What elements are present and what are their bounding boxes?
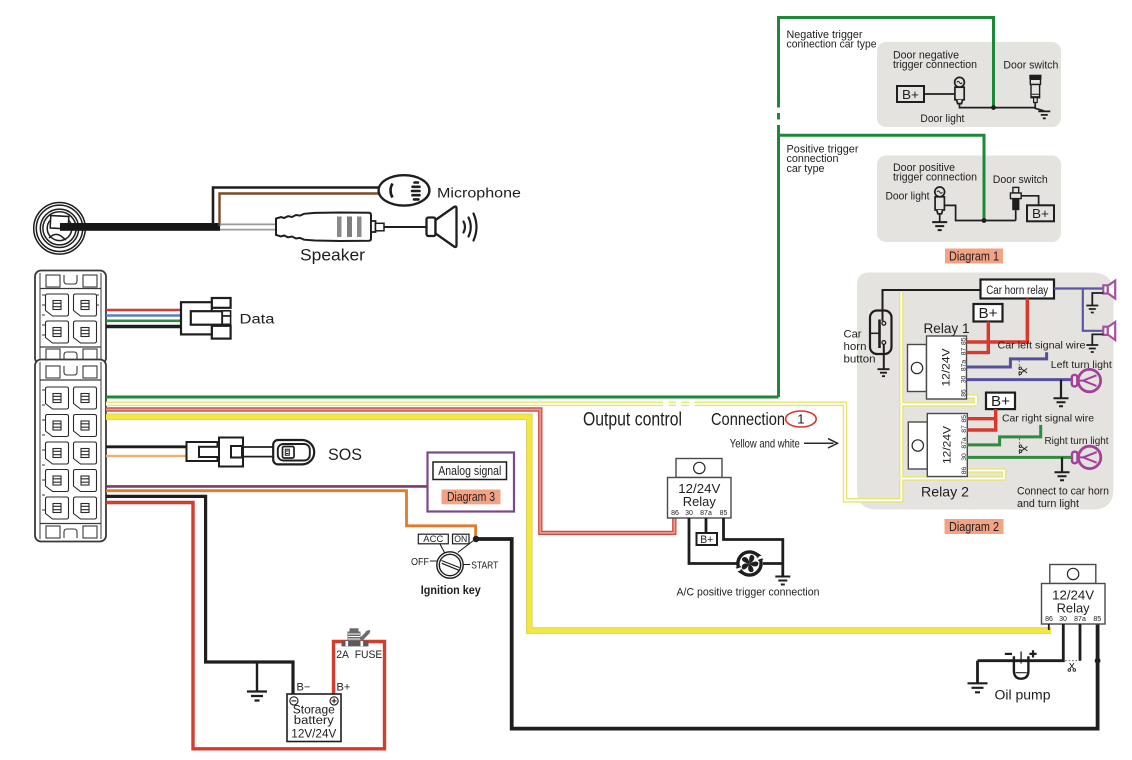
panel1 switch ground wire [1035,103,1044,111]
svg-text:Output control: Output control [583,410,682,431]
relay2 red wire pin87 [967,419,995,430]
panel1 wire B+ to bulb [924,93,955,95]
analog signal box (Diagram 3) [428,453,515,512]
junction dot pin85 [1095,658,1101,664]
relay K2 pin30 wire to oil pump [978,624,1064,661]
ground horn button [878,369,890,376]
svg-text:Analog signal: Analog signal [438,464,501,478]
svg-text:START: START [471,561,498,572]
panel1 door light bulb [955,77,965,103]
panel2 door switch icon [1010,187,1021,220]
svg-text:B+: B+ [337,682,351,694]
ground oil pump [968,683,988,692]
svg-text:Diagram 2: Diagram 2 [949,519,999,534]
oil pump relay K2 [1042,565,1106,625]
ground horn1 [1086,306,1098,313]
car horn button [870,311,892,369]
svg-text:Oil pump: Oil pump [995,688,1051,703]
svg-text:Ignition key: Ignition key [421,585,482,597]
panel2 door light bulb [935,187,945,214]
relay K2 pin86 stub [1048,624,1050,630]
wire speaker to horn [384,226,427,228]
diagram 2 panel background [857,273,1114,510]
svg-text:trigger connection: trigger connection [893,59,977,71]
svg-text:Diagram 3: Diagram 3 [447,490,495,504]
svg-text:12/24V: 12/24V [678,482,721,496]
thick audio cable [60,223,220,231]
SOS button icon mark [285,449,289,455]
ignition key switch [411,534,498,597]
svg-text:12/24V: 12/24V [1052,589,1095,603]
svg-text:Right turn light: Right turn light [1045,436,1109,447]
svg-text:A/C positive trigger connectio: A/C positive trigger connection [677,587,820,599]
door trigger panel 2 background [877,156,1061,243]
relay1 red wire pin85 to horn relay [967,299,1028,343]
data wires red/blue/green/black [106,309,182,312]
svg-text:30: 30 [1059,616,1067,623]
speaker wire (gray pair) [220,224,276,229]
svg-text:B−: B− [297,682,311,694]
left turn light bulb [1072,369,1101,391]
car horn relay box [981,280,1055,299]
panel1 B+ box [897,86,924,102]
B+ box K1 [697,533,718,545]
relay1 red wire pin87 to B+ [967,322,989,353]
panel2 wire switch to B+ [1021,196,1038,206]
scissors cut mark 3 [1065,660,1080,662]
svg-text:Door switch: Door switch [993,174,1048,186]
svg-text:Relay 2: Relay 2 [921,484,969,500]
green door-trigger wire [106,18,994,398]
svg-text:12V/24V: 12V/24V [291,729,336,741]
horn loudspeaker icon [427,207,457,248]
panel1 green junction [991,105,996,110]
svg-text:Door switch: Door switch [1003,60,1058,72]
B+ box relay2 [986,393,1015,410]
svg-text:Diagram 1: Diagram 1 [949,248,999,263]
B+ box relay1 [974,304,1003,322]
yellow wire gaps [663,400,695,408]
panel1 door switch icon [1029,75,1041,103]
svg-text:horn: horn [844,341,867,353]
svg-text:Yellow and white: Yellow and white [730,436,800,450]
svg-text:87a: 87a [700,510,712,517]
scissors cut mark 2 [1019,439,1021,458]
svg-text:B+: B+ [902,87,919,102]
SOS button S1 [273,440,314,464]
horn1 ground wire [1092,293,1103,305]
relay1 violet wire pin30 to left turn light [967,378,1072,381]
svg-text:86: 86 [671,510,679,517]
svg-text:button: button [844,354,876,366]
svg-text:85: 85 [1093,616,1101,623]
car horn speaker 2 [1103,322,1115,340]
purple analog wire [106,485,428,488]
thick yellow output wire [106,417,1051,631]
SOS wire black [106,445,188,448]
oil pump cup [1005,650,1037,678]
svg-text:Relay: Relay [1057,602,1091,616]
svg-text:and turn light: and turn light [1017,498,1079,510]
svg-text:85: 85 [720,510,728,517]
analog signal inner label box [433,462,507,480]
red-white striped output wire [106,410,674,533]
panel2 B+ box [1027,205,1054,221]
svg-text:connection car type: connection car type [787,38,877,50]
svg-text:30: 30 [685,510,693,517]
microphone wire (brown) [220,194,381,227]
svg-text:car type: car type [787,163,825,175]
svg-text:B+: B+ [979,306,998,322]
svg-text:ACC: ACC [423,534,444,544]
relay K1 pin85 wire [724,518,783,576]
black battery wire [106,496,293,694]
svg-text:Data: Data [240,312,276,327]
microphone M1 [379,175,430,205]
output relay K1 [668,459,732,519]
storage battery BT1 [287,694,341,742]
relay1 violet wire pin87a (car left signal) [967,352,1047,367]
relay 2 (12/24V) [908,414,968,477]
data connector CN2 [181,298,231,339]
svg-text:1: 1 [797,412,804,427]
relay2 red wire pin85 [967,409,995,419]
A/C fan icon [735,552,765,575]
svg-text:SOS: SOS [328,446,362,464]
svg-text:Car left signal wire: Car left signal wire [998,340,1086,351]
diagram 2 tag [945,519,1004,534]
relay2 green wire pin30 to right turn light [967,456,1072,459]
svg-text:Door light: Door light [886,190,930,202]
svg-text:Door light: Door light [920,113,964,125]
left turn light ground [1060,380,1062,398]
oil pump ground stem [976,661,979,683]
svg-text:Left turn light: Left turn light [1051,360,1112,371]
horn sound waves [464,214,477,241]
svg-text:OFF: OFF [411,557,429,568]
svg-text:Relay 1: Relay 1 [924,320,970,336]
microphone wire (black) [213,188,380,225]
svg-text:Car horn relay: Car horn relay [986,285,1048,297]
speaker device body [276,213,384,242]
main ACC black wire to oil pump relay [476,539,1098,729]
door trigger panel 1 background [877,42,1061,127]
svg-text:Relay: Relay [683,495,717,509]
ignition junction node [473,536,479,542]
arrow to diagram 2 [804,439,838,448]
yellow-white striped wire [106,292,1004,500]
2A fuse icon [342,628,371,646]
panel2 wire bulb to switch line [944,205,1015,220]
relay K2 pin87a stub [1079,624,1082,661]
panel1 bulb stub wire [960,104,1036,108]
svg-text:87a: 87a [1074,616,1086,623]
scissors cut mark 1 [1018,361,1020,380]
ground panel2 bulb [932,222,947,230]
ground battery [247,692,267,701]
svg-text:Car right signal wire: Car right signal wire [1002,414,1094,425]
svg-text:B+: B+ [991,394,1010,410]
4-pin connector CN1 [35,271,106,365]
SOS wire peach [106,455,198,458]
ground horn2 [1086,345,1098,352]
10-pin connector CN3 [35,360,106,542]
SOS connector pair [187,438,244,467]
green wire dashed segment [777,101,780,132]
relay K1 pin87a to B+ [705,518,708,533]
wire horn relay to button [883,290,981,321]
red battery wire [106,503,385,749]
relay K1 pin30 wire [689,518,737,564]
svg-text:B+: B+ [700,534,713,546]
violet wire to horns [1054,289,1103,331]
right turn light bulb [1072,446,1101,468]
svg-text:Connection: Connection [711,409,785,429]
orange ignition wire [106,491,476,537]
svg-text:2A FUSE: 2A FUSE [336,649,382,661]
fan right stub wire [763,562,783,565]
ground A/C [775,577,790,585]
svg-text:Speaker: Speaker [300,247,366,265]
relay2 green wire pin87a (car right signal) [967,425,1040,445]
svg-text:Microphone: Microphone [437,186,521,201]
diagram 3 tag [442,490,501,505]
SOS lead wires [243,447,274,457]
right turn light ground [1061,457,1063,471]
panel2 bulb ground stem [939,214,941,222]
battery ground stem [256,662,258,691]
ground panel1 switch [1038,111,1050,118]
svg-text:battery: battery [294,715,334,727]
svg-text:86: 86 [1045,616,1053,623]
horn2 ground wire [1092,334,1103,344]
plug keyway detail [50,216,69,229]
diagram 1 tag [945,249,1003,264]
svg-text:Car: Car [844,329,862,341]
svg-text:B+: B+ [1032,206,1049,221]
svg-text:trigger connection: trigger connection [893,172,977,184]
relay 1 (12/24V) [908,336,968,399]
panel2 green junction [982,218,987,223]
car horn speaker 1 [1103,281,1115,299]
svg-text:ON: ON [454,534,467,544]
round audio plug J1 [34,203,86,255]
svg-text:Connect to car horn: Connect to car horn [1017,486,1109,498]
